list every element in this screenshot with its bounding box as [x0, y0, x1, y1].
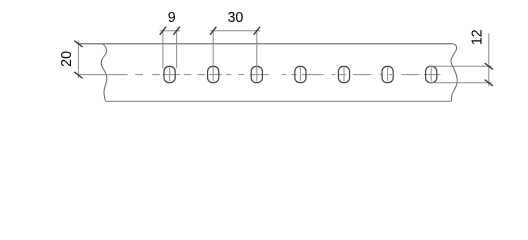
- dimension 30 line: [210, 30, 260, 32]
- dimension 12 tick top: [485, 63, 493, 69]
- dimension 30 tick left: [210, 27, 216, 35]
- dimension 9 tick left: [160, 27, 166, 35]
- dimension 20 tick bottom: [74, 72, 82, 78]
- slot 3: [251, 66, 262, 82]
- dimension 12 extension line bottom: [429, 82, 492, 84]
- svg-text:12: 12: [470, 29, 486, 45]
- break line right: [451, 44, 457, 101]
- wire top edge of strip: [78, 43, 452, 45]
- dimension 12 extension line top: [429, 65, 492, 67]
- slot 5 center marks: [343, 67, 345, 81]
- slot 1: [164, 66, 175, 82]
- dimension 9 tick right: [173, 27, 179, 35]
- dimension 9 extension lines: [163, 31, 177, 69]
- slot 5: [338, 66, 349, 82]
- dimension 30 tick right: [254, 27, 260, 35]
- dimension 12 line: [488, 33, 490, 86]
- svg-text:30: 30: [227, 10, 243, 26]
- dimension 30 extension lines: [213, 31, 257, 81]
- slot 4: [295, 66, 306, 82]
- wire bottom edge of strip: [105, 100, 451, 102]
- dimension 12 tick bottom: [485, 80, 493, 86]
- slot 7: [426, 66, 437, 82]
- centerline solid left segment: [79, 74, 128, 76]
- svg-text:20: 20: [59, 51, 75, 67]
- slot 7 center marks: [430, 67, 432, 81]
- break line left: [101, 44, 107, 101]
- svg-text:9: 9: [168, 10, 176, 26]
- dimension 9 line: [160, 30, 180, 32]
- slot 6: [382, 66, 393, 82]
- dimension 20 tick top: [74, 41, 82, 47]
- slot 4 center marks: [299, 67, 301, 81]
- slot 1 center marks: [169, 67, 171, 81]
- slot 2: [208, 66, 219, 82]
- dimension 20 line: [77, 41, 79, 79]
- slot 6 center marks: [387, 67, 389, 81]
- centerline dashes: [135, 74, 440, 76]
